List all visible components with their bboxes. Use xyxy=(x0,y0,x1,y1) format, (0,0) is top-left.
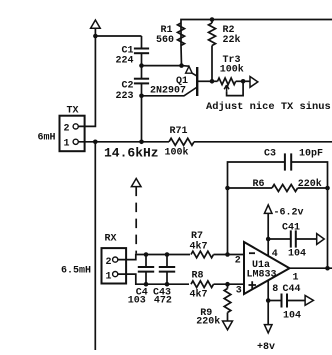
power arrow (TX supply) xyxy=(91,20,101,28)
capacitor C4 xyxy=(138,267,154,272)
wire RX pin1 to bottom rail xyxy=(118,274,189,284)
plus input sign xyxy=(249,281,257,289)
resistor R8 xyxy=(191,281,214,288)
junction C41 node xyxy=(266,237,271,242)
resistor R2 xyxy=(209,23,216,46)
wire R2 bottom lead xyxy=(211,46,213,82)
wire to Tr3 xyxy=(212,80,218,82)
minus input sign xyxy=(249,252,255,254)
wire down to TX pin1 wire xyxy=(141,96,143,142)
capacitor C2 xyxy=(134,79,149,84)
wire R2 top lead xyxy=(211,20,213,24)
wire supply to C1 top xyxy=(95,35,141,37)
svg-text:3: 3 xyxy=(236,286,242,297)
connector TX box xyxy=(60,116,85,152)
wire TX pin2 to supply xyxy=(78,36,95,126)
junction non-inv node xyxy=(225,282,230,287)
svg-text:22k: 22k xyxy=(223,34,241,46)
TX sinus out arrow xyxy=(250,77,258,88)
svg-text:TX: TX xyxy=(67,106,79,117)
C41 out arrow xyxy=(317,234,325,245)
connector RX box xyxy=(102,248,127,283)
wire C2 top lead xyxy=(141,66,143,79)
resistor R1 xyxy=(178,23,185,46)
svg-text:LM833: LM833 xyxy=(247,270,277,281)
svg-text:C2: C2 xyxy=(121,81,133,92)
svg-text:C44: C44 xyxy=(283,284,301,295)
TX pin 2 circle xyxy=(73,124,78,129)
svg-text:R71: R71 xyxy=(170,126,188,137)
wire R6 right wire xyxy=(298,187,328,189)
svg-text:104: 104 xyxy=(288,249,306,260)
svg-text:104: 104 xyxy=(283,311,301,322)
svg-text:C3: C3 xyxy=(264,149,276,160)
wire inv node up to C3 xyxy=(228,162,285,254)
R9 ground arrow xyxy=(223,321,233,330)
junction C2/collector node xyxy=(139,94,144,99)
junction output node xyxy=(325,266,330,271)
wire R1 bottom lead xyxy=(180,46,183,66)
dashed supply wire xyxy=(135,187,137,254)
junction C43 top xyxy=(165,252,170,257)
wire C43 top lead xyxy=(166,255,168,268)
wire R8 to pin3 xyxy=(214,283,245,285)
resistor R7 xyxy=(191,251,214,258)
wire emitter stub xyxy=(182,65,190,68)
svg-text:Adjust nice TX sinus: Adjust nice TX sinus xyxy=(206,101,331,113)
wire C1 top lead xyxy=(141,36,143,49)
svg-text:223: 223 xyxy=(115,91,133,102)
svg-text:R6: R6 xyxy=(253,179,265,190)
RX pin 2 circle xyxy=(113,257,118,262)
wire Tr3 out xyxy=(236,80,250,82)
wire R6 left wire xyxy=(228,187,273,189)
junction base/R2/Tr3 node xyxy=(210,79,215,84)
transistor Q1 collector xyxy=(142,87,198,96)
op-amp U1a xyxy=(244,242,290,294)
junction top rail / R2 xyxy=(210,17,215,22)
RX supply arrow xyxy=(131,179,141,187)
wire C2 bottom lead xyxy=(141,83,143,95)
transistor Q1 emitter w/ arrow xyxy=(192,73,197,76)
svg-text:103: 103 xyxy=(128,296,146,307)
svg-text:-6.2v: -6.2v xyxy=(274,207,304,218)
svg-text:R8: R8 xyxy=(192,271,204,282)
transistor Q1 base bar xyxy=(196,67,198,96)
wire RX pin2 to top rail xyxy=(118,255,190,260)
svg-text:4k7: 4k7 xyxy=(190,240,208,252)
Q1 emitter arrowhead xyxy=(186,66,193,73)
wire top rail xyxy=(181,20,332,46)
svg-text:1: 1 xyxy=(64,139,70,150)
wire C43 bottom lead xyxy=(166,272,168,285)
svg-text:1: 1 xyxy=(293,273,299,284)
RX pin 1 circle xyxy=(113,272,118,277)
wire TX pin1 out xyxy=(78,141,95,143)
svg-text:560: 560 xyxy=(156,35,174,46)
wire down to edge xyxy=(94,142,96,350)
capacitor C44 xyxy=(282,294,288,308)
wire to C44 xyxy=(268,300,281,302)
wire C44 out wire xyxy=(287,300,305,302)
svg-text:4k7: 4k7 xyxy=(190,288,208,300)
svg-text:472: 472 xyxy=(154,296,172,307)
Tr3 wiper arrow xyxy=(224,85,229,91)
junction at TX supply node xyxy=(93,34,98,39)
svg-text:2N2907: 2N2907 xyxy=(150,85,186,96)
capacitor C3 xyxy=(285,153,291,170)
TX pin 1 circle xyxy=(73,139,78,144)
svg-text:2: 2 xyxy=(235,256,241,267)
junction Tr3 wiper node xyxy=(241,79,246,84)
wire R7 to pin2 xyxy=(214,254,245,256)
capacitor C1 xyxy=(134,49,149,54)
svg-text:RX: RX xyxy=(105,234,117,245)
svg-text:C41: C41 xyxy=(282,223,300,234)
svg-text:10pF: 10pF xyxy=(299,149,323,160)
wire to Q1 emitter node xyxy=(142,65,182,67)
wire main wire right xyxy=(194,141,332,143)
junction Q1 emitter node xyxy=(179,63,184,68)
junction R6/inv node xyxy=(225,186,230,191)
wire C3 to output xyxy=(291,162,327,268)
svg-text:100k: 100k xyxy=(220,64,244,76)
wire C1-C2 link xyxy=(141,53,143,65)
wire C41 out wire xyxy=(296,238,317,240)
junction C4 top xyxy=(144,252,149,257)
+8v arrow xyxy=(264,325,272,333)
wire Q1 base wire xyxy=(197,80,212,82)
wire pin8 supply lead xyxy=(267,281,269,325)
capacitor C43 xyxy=(159,267,175,272)
wire R9 top lead xyxy=(227,284,229,288)
junction C1/C2 node xyxy=(139,63,144,68)
wire Tr3 wiper link xyxy=(227,81,244,95)
wire C4 top lead xyxy=(145,255,147,268)
wire pin4 supply lead xyxy=(267,213,269,255)
svg-text:+8v: +8v xyxy=(257,342,275,350)
junction C44 node xyxy=(266,298,271,303)
svg-text:6mH: 6mH xyxy=(37,133,55,144)
svg-text:100k: 100k xyxy=(165,147,189,159)
svg-text:8: 8 xyxy=(272,284,278,295)
-6.2v arrow xyxy=(264,205,272,214)
wire C4 bottom lead xyxy=(145,272,147,285)
svg-text:14.6kHz: 14.6kHz xyxy=(104,146,159,161)
trimmer Tr3 xyxy=(218,78,236,85)
capacitor C41 xyxy=(291,230,296,247)
junction TX pin1 node xyxy=(93,140,98,145)
svg-text:4: 4 xyxy=(272,249,278,260)
junction C43 bottom xyxy=(165,282,170,287)
svg-text:2: 2 xyxy=(64,123,70,134)
resistor R6 xyxy=(272,185,298,192)
C44 out arrow xyxy=(305,296,313,306)
junction R6/output node xyxy=(325,186,330,191)
wire to C41 xyxy=(268,238,291,240)
svg-text:224: 224 xyxy=(115,56,133,67)
junction C2 chain to main wire xyxy=(139,140,144,145)
junction C4 bottom xyxy=(144,282,149,287)
svg-text:2: 2 xyxy=(106,257,112,268)
wire triangle stem xyxy=(94,28,96,36)
wire main wire left xyxy=(95,141,169,143)
wire op-amp output xyxy=(290,267,332,269)
junction inverting node xyxy=(225,252,230,257)
wire R9 bottom lead xyxy=(227,313,229,322)
svg-text:6.5mH: 6.5mH xyxy=(61,266,91,277)
resistor R71 xyxy=(169,138,194,145)
resistor R9 xyxy=(224,289,231,313)
svg-text:220k: 220k xyxy=(196,316,220,328)
svg-text:1: 1 xyxy=(106,271,112,282)
